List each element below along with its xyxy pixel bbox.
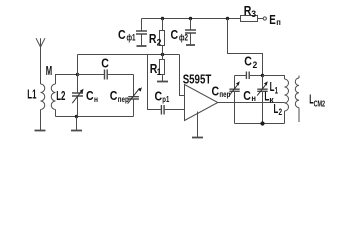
node tank ground <box>75 115 78 118</box>
svg-text:S595T: S595T <box>183 71 212 86</box>
antenna <box>36 38 45 47</box>
wire tank top to Lk <box>263 76 285 80</box>
svg-text:M: M <box>46 63 52 78</box>
wire output tap line <box>218 102 285 104</box>
inductor L1 <box>41 84 45 110</box>
ground R1 <box>157 81 168 83</box>
svg-text:пер: пер <box>118 94 129 104</box>
wire L2 bottom <box>55 110 57 117</box>
variable capacitor Cper right <box>229 76 240 124</box>
ground Cf1 <box>137 45 147 47</box>
wire feed drop <box>228 19 263 76</box>
wire L2 top <box>56 75 78 85</box>
wire C2 to tank <box>250 75 263 77</box>
wire Cp1 to amp input <box>165 109 185 111</box>
svg-text:E: E <box>269 12 276 27</box>
ground L1 <box>35 130 46 132</box>
wire bias line <box>78 54 180 56</box>
op-amp U1 S595T <box>185 85 218 121</box>
svg-text:C: C <box>86 88 94 103</box>
ground amp <box>192 137 203 139</box>
wire amp ground stub <box>197 112 199 138</box>
node bottom Cn <box>260 121 264 125</box>
svg-text:3: 3 <box>251 9 256 20</box>
svg-text:2: 2 <box>157 37 162 48</box>
svg-text:C: C <box>110 88 118 103</box>
wire left rail <box>56 116 134 118</box>
svg-text:пер: пер <box>219 89 230 99</box>
wire L1 to ground <box>40 110 42 131</box>
ground Cf2 <box>186 44 195 46</box>
svg-text:ф1: ф1 <box>127 32 136 43</box>
variable capacitor Cper left <box>128 75 142 117</box>
svg-text:р1: р1 <box>162 94 169 104</box>
node tank top <box>261 74 264 77</box>
variable capacitor Cn left <box>72 75 84 117</box>
node rail Cf2 <box>189 17 192 20</box>
inductor Lcm2 <box>295 76 299 123</box>
svg-text:C: C <box>101 55 109 70</box>
svg-text:1: 1 <box>275 85 279 96</box>
svg-text:ф2: ф2 <box>179 32 188 43</box>
resistor R3 <box>241 16 264 22</box>
svg-text:1: 1 <box>157 67 162 78</box>
svg-text:L1: L1 <box>27 87 36 102</box>
node rail R2 <box>161 17 164 20</box>
wire top rail <box>142 18 242 20</box>
wire Lk bottom <box>284 111 286 124</box>
capacitor C <box>105 70 108 80</box>
inductor Lk tapped <box>285 79 289 111</box>
svg-text:C: C <box>212 83 220 98</box>
capacitor Cf1 <box>136 19 147 46</box>
svg-text:СМ2: СМ2 <box>314 99 326 109</box>
ground tank <box>71 130 82 132</box>
capacitor C2 <box>246 72 249 80</box>
wire upper input drop <box>180 55 185 96</box>
svg-text:C: C <box>118 27 126 42</box>
wire ground stub <box>76 117 78 131</box>
capacitor Cp1 <box>161 105 164 115</box>
wire node A up to bias <box>77 55 79 75</box>
capacitor Cf2 <box>185 19 196 45</box>
wire Cper to C2 <box>235 75 246 77</box>
svg-text:C: C <box>244 53 252 68</box>
wire node A to C <box>78 74 105 76</box>
svg-text:C: C <box>243 88 251 103</box>
inductor L2 <box>51 84 55 110</box>
resistor R1 <box>160 55 165 82</box>
svg-text:2: 2 <box>279 107 283 118</box>
node rail feed <box>226 17 229 20</box>
svg-text:п: п <box>276 17 281 27</box>
wire C to Cper <box>108 74 134 76</box>
svg-text:2: 2 <box>253 60 258 71</box>
wire antenna feed <box>40 47 42 84</box>
terminal Ep <box>263 17 266 20</box>
node A <box>76 73 79 76</box>
node bias divider <box>161 53 164 56</box>
wire bottom right line <box>235 123 285 125</box>
resistor R2 <box>160 19 165 55</box>
svg-text:C: C <box>171 27 179 42</box>
svg-text:н: н <box>94 94 98 104</box>
svg-text:L2: L2 <box>56 88 65 103</box>
wire Cp1 drop <box>148 55 161 110</box>
variable capacitor Cn right <box>257 76 268 124</box>
svg-text:н: н <box>251 93 256 103</box>
